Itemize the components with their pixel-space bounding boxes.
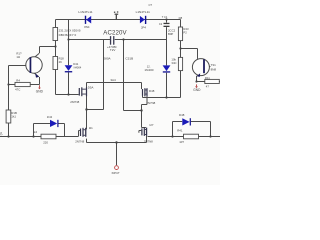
svg-text:L1N4TL11: L1N4TL11 bbox=[78, 10, 92, 14]
svg-text:47: 47 bbox=[206, 84, 210, 88]
svg-text:2N7N8: 2N7N8 bbox=[144, 139, 153, 143]
svg-text:B0P: B0P bbox=[168, 32, 173, 36]
svg-text:2N7N8: 2N7N8 bbox=[146, 101, 155, 105]
svg-text:D48: D48 bbox=[179, 113, 185, 117]
svg-text:I21: I21 bbox=[89, 126, 93, 130]
svg-text:P2: P2 bbox=[183, 31, 187, 35]
svg-text:R4: R4 bbox=[16, 79, 20, 83]
svg-text:C2: C2 bbox=[159, 22, 163, 26]
svg-text:T31: T31 bbox=[211, 63, 217, 67]
svg-text:D5A: D5A bbox=[88, 85, 94, 89]
svg-text:1Ω: 1Ω bbox=[16, 55, 20, 59]
svg-text:T2V: T2V bbox=[110, 48, 116, 52]
svg-text:GND: GND bbox=[36, 90, 44, 94]
svg-text:2N7N8: 2N7N8 bbox=[75, 140, 84, 144]
svg-text:2P4: 2P4 bbox=[141, 25, 146, 29]
svg-text:GND: GND bbox=[193, 88, 201, 92]
svg-text:C?: C? bbox=[149, 3, 153, 7]
svg-text:I27: I27 bbox=[150, 123, 154, 127]
svg-text:k4: k4 bbox=[34, 130, 37, 134]
svg-text:D8: D8 bbox=[179, 16, 183, 20]
svg-text:2N7N8: 2N7N8 bbox=[70, 100, 79, 104]
svg-text:R11: R11 bbox=[205, 76, 210, 80]
svg-text:AC220V: AC220V bbox=[103, 30, 127, 37]
svg-text:1k1: 1k1 bbox=[11, 115, 16, 119]
svg-text:N4004: N4004 bbox=[74, 66, 82, 70]
svg-text:INPUT: INPUT bbox=[112, 171, 120, 175]
svg-text:2K: 2K bbox=[59, 60, 63, 64]
svg-text:T C1: T C1 bbox=[162, 15, 168, 19]
svg-text:DB0 B2(FY 0: DB0 B2(FY 0 bbox=[59, 33, 77, 37]
svg-text:R41: R41 bbox=[177, 128, 183, 132]
svg-text:231 2(CX 0D0 B: 231 2(CX 0D0 B bbox=[59, 28, 81, 32]
svg-text:8N4: 8N4 bbox=[84, 25, 90, 29]
svg-text:34C: 34C bbox=[171, 61, 176, 65]
svg-text:220: 220 bbox=[43, 140, 48, 144]
svg-text:280A: 280A bbox=[103, 57, 111, 61]
svg-text:D48: D48 bbox=[149, 89, 155, 93]
svg-text:8N8: 8N8 bbox=[211, 68, 217, 72]
svg-text:10?: 10? bbox=[179, 140, 184, 144]
svg-text:D41: D41 bbox=[73, 62, 79, 66]
svg-text:1N400: 1N400 bbox=[144, 68, 153, 72]
svg-text:3A4: 3A4 bbox=[110, 78, 116, 82]
svg-text:C31B: C31B bbox=[125, 57, 133, 61]
svg-text:(L: (L bbox=[0, 131, 3, 135]
svg-text:47C: 47C bbox=[15, 88, 20, 92]
svg-text:1N4: 1N4 bbox=[47, 115, 53, 119]
svg-text:L1N4TL11: L1N4TL11 bbox=[136, 10, 150, 14]
